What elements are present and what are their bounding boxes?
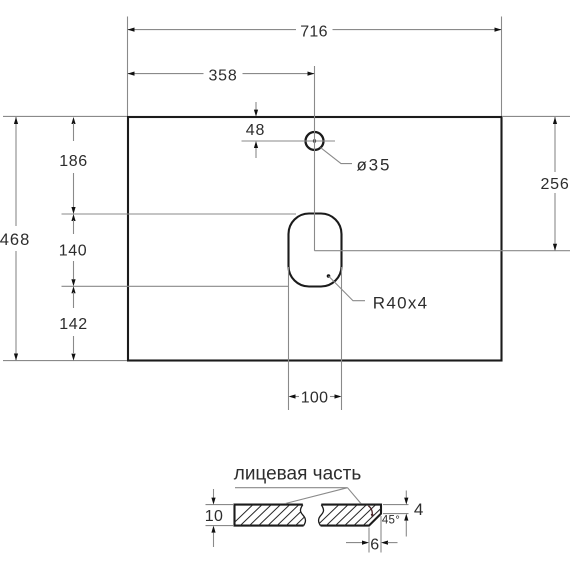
dimension 140 arrows and line xyxy=(71,214,75,221)
extension line top-left vertical xyxy=(127,17,129,117)
dimension 10 arrows xyxy=(213,489,215,498)
dimension 100 arrows xyxy=(289,394,296,398)
extension line cutout left vertical (100) xyxy=(288,267,290,410)
dimension 6 extension lines xyxy=(368,528,370,553)
svg-text:R40x4: R40x4 xyxy=(373,294,429,313)
svg-text:142: 142 xyxy=(59,316,88,333)
faucet hole center dot xyxy=(313,139,316,142)
svg-text:186: 186 xyxy=(59,153,88,170)
dimension 186 arrows and line xyxy=(71,117,75,124)
leader line for hole diameter xyxy=(321,148,353,164)
dimension 142 arrows and line xyxy=(71,286,75,293)
extension line cutout right vertical (100) xyxy=(341,267,343,410)
dimension 716 line xyxy=(128,29,297,31)
dimension 6 arrows xyxy=(346,542,363,544)
dimension 256 line xyxy=(554,117,556,172)
top view: countertop outline xyxy=(128,117,502,361)
dimension 256 arrows xyxy=(553,117,557,124)
extension line through hole horizontal (48) xyxy=(242,140,336,142)
leader dot on cutout corner xyxy=(327,274,331,278)
dimension 468 line xyxy=(15,117,17,226)
leader lines face side xyxy=(235,488,361,504)
section: left piece outline xyxy=(235,505,304,526)
extension line 326 horizontal xyxy=(62,285,289,287)
svg-text:358: 358 xyxy=(208,67,237,84)
extension line 186 horizontal xyxy=(62,213,297,215)
leader line for cutout radius xyxy=(329,276,366,301)
svg-text:48: 48 xyxy=(246,122,265,139)
dimension 48 lower arrow xyxy=(254,141,258,148)
extension line hole-center vertical xyxy=(314,66,316,251)
section: right piece outline xyxy=(321,505,382,526)
faucet hole circle xyxy=(306,132,324,150)
dimension 358 line xyxy=(128,73,204,75)
svg-text:10: 10 xyxy=(205,508,223,525)
svg-text:716: 716 xyxy=(300,24,328,41)
svg-text:лицевая часть: лицевая часть xyxy=(234,463,362,484)
dimension 468 arrows xyxy=(14,117,18,124)
extension line cutout center to right margin (256) xyxy=(315,250,570,252)
extension line top edge to right margin xyxy=(502,115,570,117)
dimension 4 line and arrows xyxy=(405,491,407,499)
extension line left top horizontal xyxy=(3,115,127,117)
svg-text:468: 468 xyxy=(0,231,30,249)
sink cutout rounded rectangle xyxy=(289,214,342,287)
svg-text:100: 100 xyxy=(301,390,329,407)
dimension 4 extension lines xyxy=(383,504,409,506)
extension line top-right vertical xyxy=(501,17,503,117)
dimension 358 arrows xyxy=(128,72,135,76)
svg-text:256: 256 xyxy=(540,176,569,193)
svg-text:4: 4 xyxy=(414,500,424,519)
extension line left bottom horizontal xyxy=(3,360,127,362)
45 degree angle arc (dark red) xyxy=(368,506,372,515)
section: left piece break edge xyxy=(300,505,305,526)
svg-text:140: 140 xyxy=(59,243,88,260)
svg-text:ø35: ø35 xyxy=(357,155,392,174)
svg-text:45°: 45° xyxy=(382,515,400,527)
dimension 10 extension lines xyxy=(206,504,234,506)
dimension 716 arrows xyxy=(128,28,135,32)
dimension 48 upper arrow xyxy=(255,102,257,110)
svg-text:6: 6 xyxy=(370,536,379,553)
